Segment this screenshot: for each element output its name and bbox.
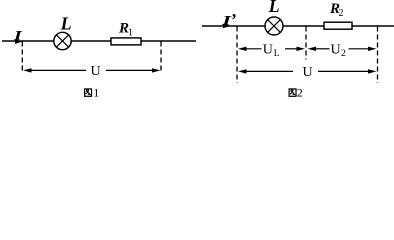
svg-text:’: ’ [230,10,236,30]
dimension arrow U2 right part [349,47,377,51]
dashed extension line (right, at x=377.5) [377,27,379,84]
current direction arrowhead on wire [223,24,231,29]
dimension arrow UL right part [285,47,305,51]
svg-text:L: L [268,0,280,16]
caption 图2 [289,86,303,100]
svg-text:U: U [331,42,341,57]
wire W1b (lamp to resistor R1) [71,40,111,42]
current direction arrowhead on wire [15,39,23,44]
svg-text:L: L [274,49,280,59]
svg-text:2: 2 [339,8,344,19]
svg-text:U: U [303,65,313,80]
resistor R1 (rectangle) [111,38,141,45]
svg-text:2: 2 [297,86,303,100]
wire W1a (left segment to lamp) [2,40,54,42]
dimension arrow U (total) right part [318,69,377,73]
svg-text:U: U [263,42,273,57]
caption 图1 [85,86,100,100]
dimension arrow U (right half) [106,68,161,72]
svg-text:2: 2 [341,49,346,59]
dashed extension line (middle, at x=306) [305,27,307,60]
voltage label UL [263,42,280,59]
dimension arrow U (left half) [23,68,86,72]
svg-text:1: 1 [93,86,99,100]
resistor label R1 [118,21,133,39]
dimension arrow U (total voltage) left part [238,69,293,73]
dashed extension line (right, at x=161) [160,42,162,72]
dimension arrow UL (lamp voltage) left part [238,47,262,51]
lamp L (circle with X) [54,32,71,49]
dimension arrow U2 (resistor voltage) left part [308,47,330,51]
resistor label R2 [329,1,344,19]
wire W2b (lamp to resistor R2) [283,25,324,27]
svg-text:L: L [60,14,72,34]
lamp L (circle with X) [265,17,283,35]
resistor R2 (rectangle) [324,22,352,29]
wire W2a (left segment to lamp) [202,25,265,27]
voltage label U2 [331,42,347,59]
wire W2c (resistor R2 to right edge) [352,25,394,27]
dashed extension line (left, at x=22) [21,42,23,72]
wire W1c (resistor R1 to right end) [141,40,196,42]
svg-text:U: U [91,64,101,79]
dashed extension line (left, at x=237) [236,27,238,84]
svg-text:1: 1 [128,28,133,39]
